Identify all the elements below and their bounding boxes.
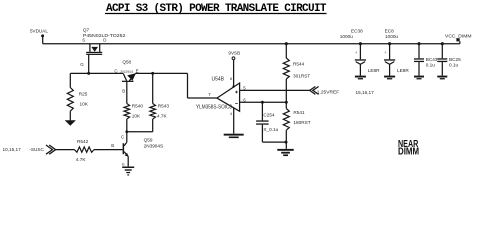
svg-text:E: E [122, 162, 125, 167]
svg-text:1.25VREF: 1.25VREF [317, 90, 339, 96]
svg-text:S: S [82, 37, 85, 42]
svg-text:E: E [136, 69, 139, 74]
svg-text:10,15,17: 10,15,17 [3, 147, 22, 152]
svg-text:10K: 10K [132, 114, 141, 119]
svg-text:Q59: Q59 [144, 137, 153, 142]
svg-text:4.7K: 4.7K [157, 114, 168, 119]
svg-text:180RST: 180RST [293, 120, 310, 125]
svg-text:BC25: BC25 [449, 57, 461, 62]
svg-text:301RST: 301RST [293, 73, 310, 78]
svg-text:+: + [384, 50, 387, 55]
svg-text:LE8R: LE8R [397, 68, 409, 73]
svg-text:Q7: Q7 [83, 27, 90, 32]
svg-text:C: C [121, 135, 124, 140]
svg-text:YLM358S-SOIC8: YLM358S-SOIC8 [196, 105, 232, 111]
svg-text:B: B [122, 89, 125, 94]
svg-text:7: 7 [208, 92, 211, 97]
svg-text:D: D [103, 37, 106, 42]
svg-text:B: B [111, 143, 114, 148]
svg-text:10K: 10K [80, 101, 89, 106]
svg-text:4.7K: 4.7K [76, 157, 87, 162]
svg-text:1000u: 1000u [340, 34, 353, 39]
svg-text:C: C [114, 69, 117, 74]
svg-text:4: 4 [230, 112, 232, 116]
svg-text:0.1u: 0.1u [426, 62, 436, 67]
svg-text:-SUSC: -SUSC [29, 147, 44, 152]
svg-text:R25: R25 [79, 92, 88, 97]
svg-text:EC38: EC38 [351, 29, 363, 34]
svg-text:5VDUAL: 5VDUAL [30, 29, 48, 34]
svg-text:15,16,17: 15,16,17 [356, 90, 375, 95]
svg-text:X_0.1u: X_0.1u [263, 127, 278, 132]
svg-text:R544: R544 [293, 62, 305, 67]
svg-text:R543: R543 [158, 104, 170, 109]
svg-text:G: G [80, 62, 84, 67]
svg-text:R541: R541 [293, 110, 305, 115]
svg-text:2N3904S: 2N3904S [144, 143, 164, 148]
svg-text:R542: R542 [77, 139, 89, 144]
svg-text:C254: C254 [263, 113, 275, 118]
svg-text:1000u: 1000u [385, 34, 398, 39]
svg-text:2N3904: 2N3904 [120, 70, 133, 74]
svg-text:BC43: BC43 [426, 57, 438, 62]
svg-text:DIMM: DIMM [398, 147, 419, 158]
svg-text:VCC_DIMM: VCC_DIMM [445, 34, 472, 40]
svg-text:EC8: EC8 [385, 29, 395, 34]
svg-text:R540: R540 [132, 104, 144, 109]
svg-text:8: 8 [230, 77, 232, 81]
svg-text:LE8R: LE8R [368, 68, 380, 73]
svg-text:9VSB: 9VSB [228, 51, 240, 56]
svg-text:+: + [355, 50, 358, 55]
svg-text:U54B: U54B [212, 77, 225, 83]
svg-text:0.1u: 0.1u [449, 62, 459, 67]
svg-text:Q58: Q58 [122, 59, 131, 64]
